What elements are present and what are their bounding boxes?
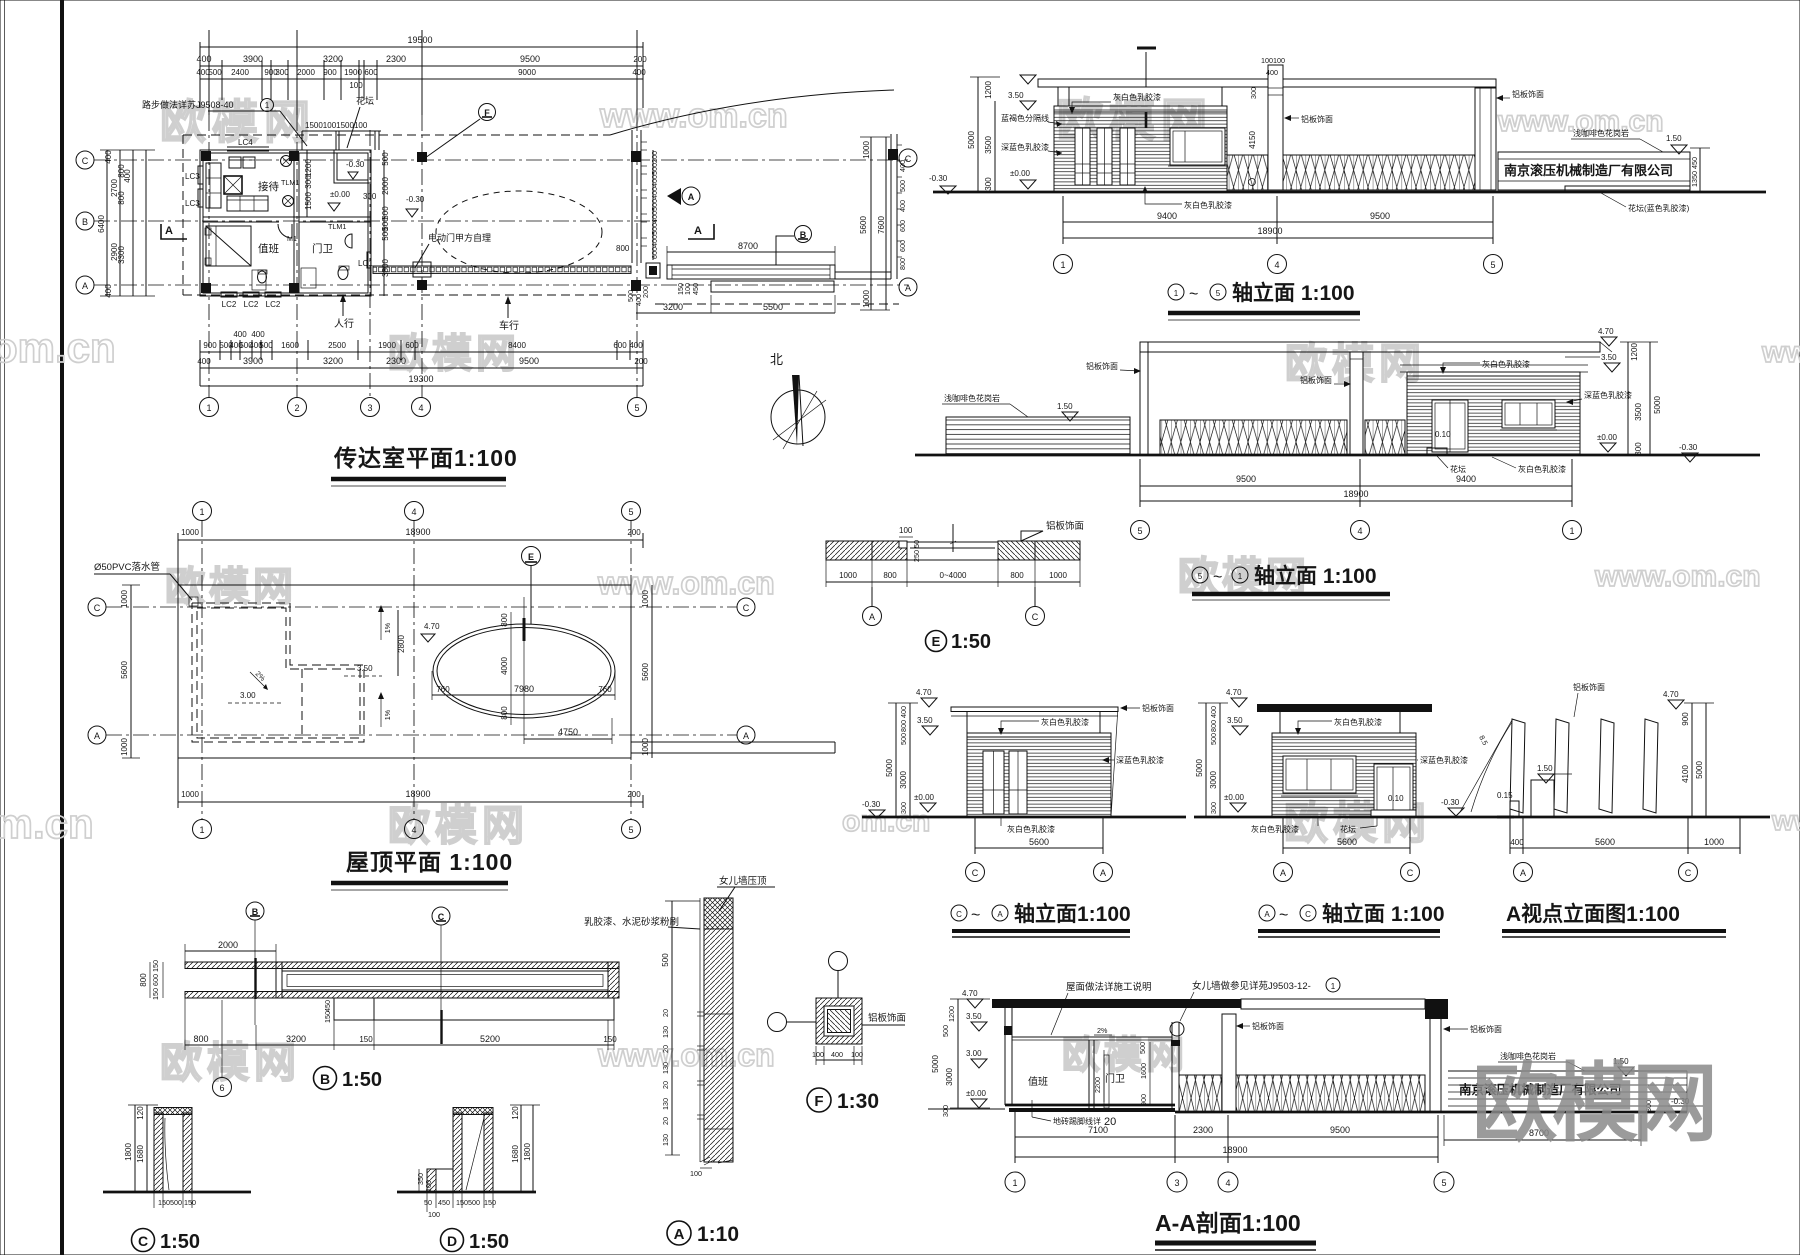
svg-text:4.70: 4.70 — [916, 688, 932, 697]
dims below elevation — [1063, 221, 1493, 223]
svg-text:9400: 9400 — [1456, 474, 1476, 484]
svg-text:50: 50 — [912, 540, 921, 548]
sofa bottom — [227, 196, 268, 211]
svg-text:M1: M1 — [287, 234, 297, 243]
right boundary wall — [890, 134, 892, 279]
window — [1502, 400, 1555, 428]
axis bubbles A C — [1274, 863, 1293, 882]
C gate post right jamb — [183, 1113, 192, 1192]
partition wall vertical — [293, 153, 295, 293]
svg-text:200: 200 — [633, 55, 647, 64]
svg-text:4.70: 4.70 — [1598, 327, 1614, 336]
reception furniture: armchairs — [229, 157, 241, 168]
svg-text:2000: 2000 — [218, 940, 238, 950]
svg-text:100: 100 — [812, 1050, 824, 1059]
svg-text:800: 800 — [616, 244, 630, 253]
svg-text:1: 1 — [1174, 289, 1179, 298]
left pillar — [1140, 342, 1148, 455]
svg-text:C: C — [956, 910, 962, 919]
slope arrow 1% upper — [380, 608, 382, 640]
svg-text:1900: 1900 — [344, 68, 362, 77]
axis bubble A left — [76, 276, 94, 294]
svg-text:3.50: 3.50 — [357, 664, 373, 673]
posts between roof and body — [1057, 87, 1059, 106]
svg-text:150: 150 — [359, 1035, 373, 1044]
svg-text:1:50: 1:50 — [469, 1231, 509, 1253]
window right — [1170, 128, 1225, 165]
slope arrow 1% lower — [380, 695, 382, 727]
svg-text:A视点立面图1:100: A视点立面图1:100 — [1506, 902, 1680, 926]
svg-text:15001001500100: 15001001500100 — [305, 121, 368, 130]
left dim stack — [895, 703, 897, 817]
svg-text:~: ~ — [1213, 569, 1222, 586]
svg-text:3200: 3200 — [323, 356, 343, 366]
svg-text:4.70: 4.70 — [424, 622, 440, 631]
svg-text:C: C — [1407, 868, 1414, 878]
svg-text:3300: 3300 — [117, 246, 126, 264]
svg-text:北: 北 — [770, 352, 783, 367]
svg-text:3.00: 3.00 — [240, 691, 256, 700]
svg-text:800: 800 — [1209, 720, 1218, 732]
plan top dimension chain 19500 — [196, 30, 647, 115]
svg-text:500: 500 — [661, 953, 670, 967]
pedestrian arrow 人行 — [342, 300, 344, 316]
svg-text:4: 4 — [1225, 1178, 1230, 1188]
svg-text:300: 300 — [1249, 87, 1258, 99]
sofa left column — [206, 163, 221, 208]
svg-text:100: 100 — [424, 1180, 433, 1192]
svg-text:LC2: LC2 — [266, 300, 281, 309]
svg-text:欧模网: 欧模网 — [388, 332, 520, 376]
svg-text:1600: 1600 — [281, 341, 299, 350]
dim 2800 — [397, 610, 399, 676]
svg-text:A: A — [905, 283, 911, 293]
svg-text:3: 3 — [1174, 1178, 1179, 1188]
svg-text:100: 100 — [349, 81, 363, 90]
svg-text:400: 400 — [634, 294, 643, 306]
roof slab outline right — [1241, 999, 1425, 1009]
svg-text:门卫: 门卫 — [312, 242, 333, 255]
roof axis lines vertical — [201, 521, 203, 819]
svg-text:800: 800 — [898, 258, 907, 270]
svg-text:9000: 9000 — [518, 68, 536, 77]
svg-text:A: A — [94, 731, 100, 741]
svg-text:3200: 3200 — [663, 302, 683, 312]
svg-text:C: C — [1305, 910, 1311, 919]
svg-text:5200: 5200 — [480, 1034, 500, 1044]
svg-text:500: 500 — [1209, 733, 1218, 745]
axis line 4 — [421, 115, 423, 398]
svg-text:1200: 1200 — [1630, 343, 1639, 361]
axis line C — [94, 159, 908, 161]
svg-text:400: 400 — [1266, 68, 1278, 77]
dim 8700 above B wall — [667, 251, 835, 253]
svg-text:灰白色乳胶漆: 灰白色乳胶漆 — [1334, 717, 1382, 727]
svg-text:18900: 18900 — [1343, 489, 1368, 499]
svg-text:铝板饰面: 铝板饰面 — [1573, 682, 1605, 692]
roof slab — [1140, 342, 1600, 352]
planter 花坛 top-right of plan — [334, 150, 371, 183]
svg-text:人行: 人行 — [334, 317, 354, 330]
C post cap — [154, 1108, 192, 1115]
svg-text:5000: 5000 — [885, 759, 894, 777]
svg-text:轴立面 1:100: 轴立面 1:100 — [1254, 564, 1377, 588]
svg-text:3200: 3200 — [323, 54, 343, 64]
svg-text:±0.00: ±0.00 — [1224, 793, 1245, 802]
roof slab — [951, 707, 1118, 712]
svg-text:1: 1 — [1331, 982, 1336, 991]
svg-text:9500: 9500 — [520, 54, 540, 64]
svg-text:5: 5 — [1216, 289, 1221, 298]
svg-text:1000: 1000 — [120, 738, 129, 756]
B node marker — [246, 902, 264, 920]
svg-text:5000: 5000 — [931, 1055, 940, 1073]
svg-text:2500: 2500 — [328, 341, 346, 350]
svg-text:7600: 7600 — [877, 216, 886, 234]
svg-text:www.om.cn: www.om.cn — [599, 97, 788, 135]
svg-text:4000: 4000 — [500, 657, 509, 675]
svg-text:300: 300 — [1634, 442, 1643, 456]
slat 3 — [1599, 719, 1614, 813]
svg-text:2300: 2300 — [386, 54, 406, 64]
svg-text:4.70: 4.70 — [962, 989, 978, 998]
svg-text:3.50: 3.50 — [1601, 353, 1617, 362]
E title — [926, 631, 947, 652]
axis bubbles 1 4 5 — [1054, 255, 1073, 274]
accordion fence — [1160, 420, 1347, 455]
svg-text:LC4: LC4 — [238, 138, 253, 147]
svg-text:门卫: 门卫 — [1105, 1072, 1125, 1085]
E axis bubble C — [1034, 587, 1036, 607]
svg-text:20: 20 — [661, 1081, 670, 1089]
svg-text:5: 5 — [628, 507, 633, 517]
svg-text:100: 100 — [899, 526, 913, 535]
svg-text:灰白色乳胶漆: 灰白色乳胶漆 — [1482, 359, 1530, 369]
svg-text:500: 500 — [208, 68, 222, 77]
svg-text:500: 500 — [899, 733, 908, 745]
svg-text:900: 900 — [203, 341, 217, 350]
svg-text:300: 300 — [275, 68, 289, 77]
svg-text:A: A — [869, 612, 875, 622]
svg-text:500: 500 — [650, 163, 659, 175]
svg-text:300: 300 — [1209, 802, 1218, 814]
svg-text:±0.00: ±0.00 — [330, 190, 351, 199]
svg-text:0~4000: 0~4000 — [940, 571, 967, 580]
svg-text:~: ~ — [971, 907, 980, 924]
svg-text:传达室平面1:100: 传达室平面1:100 — [333, 445, 518, 471]
svg-text:9500: 9500 — [1236, 474, 1256, 484]
svg-text:400: 400 — [831, 1050, 843, 1059]
slat 4 — [1643, 719, 1658, 813]
svg-text:400: 400 — [650, 175, 659, 187]
svg-text:800: 800 — [899, 720, 908, 732]
dims — [1510, 847, 1740, 849]
roof right dims — [651, 585, 653, 758]
toilet in 门卫 — [338, 267, 348, 280]
D post left jamb — [453, 1113, 462, 1192]
title C~A — [951, 905, 967, 921]
svg-text:100100: 100100 — [1261, 56, 1285, 65]
svg-text:18900: 18900 — [1222, 1145, 1247, 1155]
left level triangles — [1020, 75, 1036, 84]
left granite wall — [946, 417, 1130, 455]
svg-text:5000: 5000 — [967, 131, 976, 149]
svg-text:C: C — [972, 868, 979, 878]
svg-text:5: 5 — [1441, 1178, 1446, 1188]
svg-text:-0.30: -0.30 — [1679, 443, 1698, 452]
outside ground right — [1175, 1111, 1687, 1114]
svg-text:轴立面 1:100: 轴立面 1:100 — [1322, 902, 1445, 926]
B wall divider — [275, 962, 277, 998]
svg-text:5000: 5000 — [1653, 396, 1662, 414]
floor slabs — [1005, 1104, 1175, 1107]
dashed ellipse driveway — [436, 191, 602, 273]
svg-text:20: 20 — [661, 1117, 670, 1125]
svg-text:1:50: 1:50 — [160, 1231, 200, 1253]
roof axis bubble A right — [737, 726, 755, 744]
svg-text:1: 1 — [206, 403, 211, 413]
axis line 2 — [296, 115, 298, 398]
svg-text:A: A — [743, 731, 749, 741]
roof slab solid left — [992, 999, 1241, 1008]
svg-text:9400: 9400 — [1157, 211, 1177, 221]
C node marker — [432, 907, 450, 925]
slat 2 — [1554, 719, 1569, 813]
svg-text:3.00: 3.00 — [966, 1049, 982, 1058]
svg-text:C: C — [82, 156, 89, 166]
svg-text:19300: 19300 — [408, 374, 433, 384]
svg-text:1:10: 1:10 — [697, 1223, 739, 1246]
svg-text:C: C — [1032, 612, 1039, 622]
svg-text:5000: 5000 — [1195, 759, 1204, 777]
section arrow A view — [667, 188, 681, 205]
left wall — [1004, 999, 1006, 1105]
toilet in 值班 — [258, 271, 267, 283]
A10 title — [667, 1221, 691, 1245]
svg-text:5: 5 — [634, 403, 639, 413]
title 5~1 轴立面 1:100 — [1192, 567, 1208, 583]
svg-text:A: A — [997, 910, 1003, 919]
svg-text:2800: 2800 — [397, 635, 406, 653]
svg-text:接待: 接待 — [258, 180, 279, 193]
svg-text:5600: 5600 — [1595, 837, 1615, 847]
svg-text:www.om.cn: www.om.cn — [597, 565, 775, 601]
desk in 值班 — [252, 270, 266, 290]
svg-text:花坛: 花坛 — [1340, 824, 1356, 834]
svg-text:3900: 3900 — [243, 356, 263, 366]
electric gate track — [373, 266, 631, 273]
svg-text:花坛: 花坛 — [356, 95, 374, 106]
axis bubble 6 — [221, 1000, 223, 1077]
node B marker — [795, 226, 812, 243]
window LC3 lower — [198, 189, 203, 207]
svg-text:600: 600 — [405, 341, 419, 350]
svg-text:深蓝色乳胶漆: 深蓝色乳胶漆 — [1116, 755, 1164, 765]
svg-text:100: 100 — [428, 1210, 440, 1219]
svg-text:500: 500 — [1138, 1042, 1147, 1054]
gatehouse body with siding — [1054, 106, 1227, 192]
svg-text:铝板饰面: 铝板饰面 — [1470, 1024, 1502, 1034]
svg-text:4: 4 — [1357, 526, 1362, 536]
svg-text:150: 150 — [158, 1198, 170, 1207]
fence section — [1179, 1075, 1425, 1112]
svg-text:600: 600 — [898, 220, 907, 232]
planter front — [1565, 186, 1690, 192]
svg-text:www.om.cn: www.om.cn — [1594, 560, 1761, 593]
svg-text:1680: 1680 — [511, 1145, 520, 1163]
svg-text:400: 400 — [898, 200, 907, 212]
svg-text:4: 4 — [418, 403, 423, 413]
svg-text:2300: 2300 — [1193, 1125, 1213, 1135]
svg-text:浅咖啡色花岗岩: 浅咖啡色花岗岩 — [1573, 128, 1629, 138]
svg-text:5600: 5600 — [1029, 837, 1049, 847]
svg-text:±0.00: ±0.00 — [1010, 169, 1031, 178]
svg-text:400: 400 — [233, 330, 247, 339]
svg-text:200: 200 — [627, 790, 641, 799]
svg-text:18900: 18900 — [1257, 226, 1282, 236]
svg-text:1%: 1% — [383, 622, 392, 633]
svg-text:400: 400 — [650, 187, 659, 199]
svg-text:0.10: 0.10 — [1388, 794, 1404, 803]
B bottom dim chain — [185, 1044, 614, 1046]
svg-text:760: 760 — [598, 685, 612, 694]
svg-text:值班: 值班 — [1028, 1075, 1048, 1088]
svg-text:1000: 1000 — [120, 590, 129, 608]
svg-text:1680: 1680 — [136, 1145, 145, 1163]
svg-text:屋顶平面 1:100: 屋顶平面 1:100 — [346, 849, 513, 875]
F dims — [816, 1059, 862, 1061]
right slant edge — [1111, 707, 1118, 817]
svg-text:1%: 1% — [383, 709, 392, 720]
dim 5600 — [975, 847, 1103, 849]
svg-text:铝板饰面: 铝板饰面 — [1046, 520, 1084, 532]
svg-text:1200: 1200 — [304, 159, 313, 177]
svg-text:2300: 2300 — [386, 356, 406, 366]
roof axis A horizontal — [106, 734, 737, 736]
svg-text:800: 800 — [500, 706, 509, 720]
title A~C — [1259, 905, 1275, 921]
window left — [1283, 756, 1356, 793]
svg-text:150: 150 — [676, 283, 685, 295]
F circle left — [768, 1013, 787, 1032]
node F marker — [479, 104, 496, 121]
svg-text:1: 1 — [199, 825, 204, 835]
company sign wall — [1498, 152, 1690, 190]
F post section outer — [816, 998, 862, 1044]
svg-text:1:50: 1:50 — [951, 631, 991, 653]
svg-text:1: 1 — [1012, 1178, 1017, 1188]
svg-text:400: 400 — [1510, 838, 1524, 847]
sheet border thin line — [4, 0, 6, 1255]
svg-text:C: C — [1685, 868, 1692, 878]
roof axis C horizontal — [106, 606, 737, 608]
B title — [314, 1067, 337, 1090]
svg-text:9500: 9500 — [519, 356, 539, 366]
svg-text:深蓝色乳胶漆: 深蓝色乳胶漆 — [1001, 142, 1049, 152]
svg-text:800: 800 — [1010, 571, 1024, 580]
svg-text:~: ~ — [1189, 286, 1198, 303]
right dim stack — [1691, 703, 1693, 817]
C gate post left jamb — [154, 1113, 163, 1192]
svg-text:500: 500 — [650, 223, 659, 235]
svg-text:深蓝色乳胶漆: 深蓝色乳胶漆 — [1584, 390, 1632, 400]
svg-text:800: 800 — [193, 1034, 208, 1044]
plant symbol top — [281, 156, 292, 167]
tea table with X — [224, 176, 242, 194]
svg-text:400: 400 — [197, 357, 211, 366]
svg-text:300: 300 — [984, 177, 993, 191]
svg-text:150: 150 — [603, 1035, 617, 1044]
svg-text:20: 20 — [661, 1045, 670, 1053]
E step notch — [899, 541, 907, 548]
svg-text:500: 500 — [381, 152, 390, 166]
axis bubble C left — [76, 151, 94, 169]
svg-text:500: 500 — [650, 199, 659, 211]
svg-text:150: 150 — [484, 1198, 496, 1207]
E right concrete blocks — [998, 541, 1080, 560]
roof slab — [1038, 79, 1496, 87]
svg-text:灰白色乳胶漆: 灰白色乳胶漆 — [1184, 200, 1232, 210]
axis bubble B left — [76, 212, 94, 230]
B wall inner panel — [282, 971, 608, 990]
svg-text:200: 200 — [650, 151, 659, 163]
bed in 值班 — [206, 226, 251, 266]
plant symbol mid — [283, 196, 294, 207]
svg-text:1:30: 1:30 — [837, 1090, 879, 1113]
D door leaf — [466, 1118, 484, 1190]
svg-text:1900: 1900 — [378, 341, 396, 350]
svg-text:1000: 1000 — [1704, 837, 1724, 847]
B wall bottom hatched strip — [185, 992, 619, 999]
svg-text:130: 130 — [661, 1026, 670, 1038]
svg-text:7100: 7100 — [1088, 1125, 1108, 1135]
svg-text:450: 450 — [691, 283, 700, 295]
roof slab outline — [178, 585, 631, 758]
svg-text:200: 200 — [627, 528, 641, 537]
slat 1 — [1510, 719, 1525, 813]
E break line — [952, 524, 954, 552]
svg-text:800: 800 — [117, 191, 126, 205]
svg-text:乳胶漆、水泥砂浆粉刷: 乳胶漆、水泥砂浆粉刷 — [584, 916, 679, 928]
svg-text:0.15: 0.15 — [1497, 791, 1513, 800]
right dim 450 1350 — [1699, 148, 1701, 192]
svg-text:1.50: 1.50 — [1057, 402, 1073, 411]
svg-text:600: 600 — [613, 341, 627, 350]
svg-text:灰白色乳胶漆: 灰白色乳胶漆 — [1113, 92, 1161, 102]
svg-text:2400: 2400 — [231, 68, 249, 77]
svg-text:4.70: 4.70 — [1663, 690, 1679, 699]
axis line B — [94, 220, 660, 222]
E gate track lines — [907, 541, 998, 543]
svg-text:灰白色乳胶漆: 灰白色乳胶漆 — [1251, 824, 1299, 834]
svg-text:600: 600 — [364, 68, 378, 77]
svg-text:1600: 1600 — [1139, 1063, 1148, 1079]
svg-text:欧模网: 欧模网 — [1062, 1035, 1188, 1077]
center pillar axis4 — [1350, 352, 1363, 455]
svg-text:1.50: 1.50 — [1537, 764, 1553, 773]
gate end block — [646, 263, 660, 278]
svg-text:铝板饰面: 铝板饰面 — [868, 1012, 906, 1024]
svg-text:灰白色乳胶漆: 灰白色乳胶漆 — [1518, 464, 1566, 474]
svg-text:18900: 18900 — [405, 527, 430, 537]
svg-text:500: 500 — [941, 1025, 950, 1037]
axis line 1 — [208, 115, 210, 398]
svg-text:2000: 2000 — [297, 68, 315, 77]
slope arrow 2% — [250, 672, 266, 688]
axis line 5 — [636, 115, 638, 398]
svg-text:Ø50PVC落水管: Ø50PVC落水管 — [94, 561, 160, 573]
D ground line — [397, 1191, 536, 1194]
